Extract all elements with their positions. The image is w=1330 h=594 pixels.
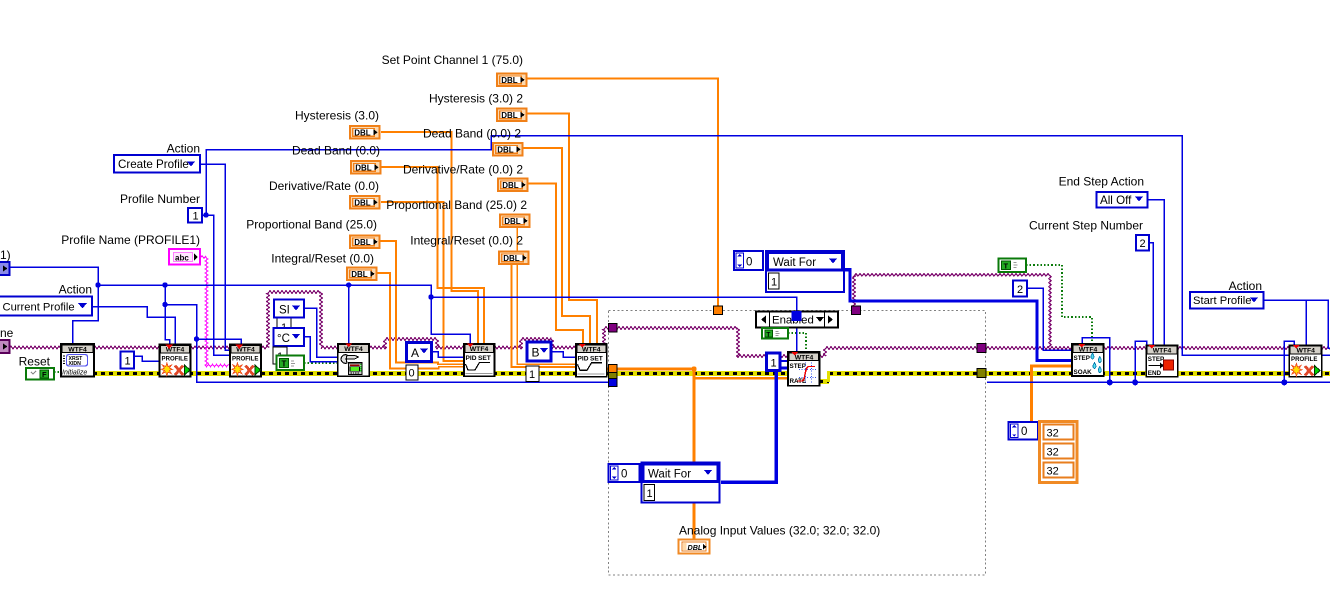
wire: orange Wait For 2 to Analog Input Values array terminal [693,503,696,539]
tunnel: purple string tunnel structure right edge [977,344,986,353]
dropdown: A [407,343,432,362]
terminal DBL Proportional Band 2 [500,215,530,228]
node U8 WTF4 STEP SOAK [1072,344,1104,376]
BOXES-LAYER [0,74,1264,554]
wire: blue bottom rail right side [987,341,1330,382]
tunnel: blue square on Enabled selector top [792,311,802,321]
wire: blue left terminal (1) to long horizontal rail [9,267,98,344]
wire: green dotted boolean TF to wrench node [304,362,337,364]
control: Wait For 1 dropdown with value 1 [766,251,844,292]
svg-text:WTF4: WTF4 [795,354,814,361]
wire: purple string inside structure from tunnel to right tunnel [617,327,977,358]
wire: pink dotted string from abc constant to PROFILE node 2 [200,256,229,367]
svg-text:1): 1) [0,248,11,262]
terminal DBL Integral/Reset 2 [499,252,529,265]
junction dot: orange wire junction at Wait For 2 feed [691,366,696,371]
svg-text:Derivative/Rate (0.0): Derivative/Rate (0.0) [269,179,379,193]
svg-text:Hysteresis (3.0): Hysteresis (3.0) [295,109,379,123]
terminal DBL Hysteresis [350,126,380,139]
svg-text:°C: °C [277,333,290,345]
svg-text:Start Profile: Start Profile [1193,295,1251,307]
node U10 WTF4 PROFILE 3 [1289,345,1322,377]
wire: orange into STEP SOAK and down to array constant [1032,366,1073,421]
wire: blue Current Step Number constant to STEP END [1148,243,1153,346]
svg-text:End Step Action: End Step Action [1059,175,1144,189]
terminal: blue numeric terminal left edge (1) [0,262,10,275]
svg-text:F: F [42,370,47,379]
wire: blue constant 1 to STEP RATE node [780,360,788,362]
constant: green boolean F Reset [26,368,54,380]
wire: blue constant 2 to STEP SOAK [1027,288,1072,350]
node U9 WTF4 STEP END [1146,345,1177,377]
wire: orange Set Point Channel 1 to structure tunnel [527,79,718,307]
dropdown: All Off [1097,192,1148,208]
NODES-LAYER [61,344,1322,386]
svg-text:Integral/Reset (0.0): Integral/Reset (0.0) [271,252,374,266]
wire: blue rail branch to PROFILE node 1 [165,285,170,345]
wire: orange Proportional Band to PID SET A [380,241,464,364]
svg-text:1: 1 [647,488,653,500]
node U4 WTF4 configure (wrench) [338,344,370,377]
svg-text:PROFILE: PROFILE [1291,356,1317,363]
svg-text:PID: PID [466,355,477,362]
svg-text:T: T [282,359,287,368]
node U1 WTF4 Initialize [61,344,94,377]
svg-text:32: 32 [1047,466,1059,478]
control: array index spinner 0 [1009,422,1039,440]
svg-text:1: 1 [771,277,777,289]
wire: green dotted boolean TF to STEP SOAK node [1026,265,1092,344]
svg-text:WTF4: WTF4 [1079,346,1098,353]
svg-text:Set Point Channel 1 (75.0): Set Point Channel 1 (75.0) [382,53,523,67]
structure: diagram disable structure dotted border [609,311,986,576]
svg-text:Proportional Band (25.0): Proportional Band (25.0) [246,218,377,232]
constant: orange array of 32 values [1040,422,1078,483]
wire: blue long action rail y=285 [98,285,470,344]
wire: blue constant 1 to PROFILE node 1 [134,356,160,361]
junction dots: blue wire junctions [95,212,1287,385]
svg-text:Reset: Reset [19,355,51,369]
svg-text:PROFILE: PROFILE [232,356,258,363]
svg-text:Create Profile: Create Profile [118,158,189,171]
dropdown: Start Profile [1190,292,1264,309]
wire: blue Create Profile dropdown to PROFILE node 2 [200,164,230,350]
wire: orange Derivative/Rate 2 to PID SET B [527,184,583,345]
constant: 1 for STEP RATE [767,353,781,371]
svg-text:Profile Number: Profile Number [120,192,200,206]
svg-text:Wait For: Wait For [648,469,691,481]
wire: blue SI dropdown to wrench node [304,308,338,357]
wire: orange from tunnel to STEP RATE and down to Wait For 2 [607,369,788,462]
wire: orange Dead Band 2 to PID SET B [523,148,590,344]
svg-text:Current Step Number: Current Step Number [1029,219,1143,233]
terminal DBL Dead Band 2 [493,143,523,156]
wire: orange Integral/Reset to PID SET A [377,273,464,369]
svg-text:1: 1 [125,356,131,368]
node U6 WTF4 PID SET B [576,344,607,377]
svg-text:STEP: STEP [790,363,806,370]
svg-text:Proportional Band (25.0) 2: Proportional Band (25.0) 2 [386,198,527,212]
svg-text:A: A [411,346,419,360]
svg-text:32: 32 [1047,428,1059,440]
svg-text:ne: ne [0,326,14,340]
wire: blue Profile Number constant rail up and long top wire [202,136,1330,356]
wire: green dotted boolean TF to STEP RATE node [788,333,806,352]
terminal: DBL array Analog Input Values [679,540,710,554]
svg-text:Analog Input Values (32.0; 32.: Analog Input Values (32.0; 32.0; 32.0) [679,524,880,538]
wire: thick blue Wait For 1 output to STEP SOAK [844,270,1072,361]
selector: Enabled case selector [756,312,838,328]
constant: pink abc string constant [169,249,200,265]
wire: blue Current Profile dropdown to PROFILE node 1 [92,307,175,346]
svg-text:1: 1 [529,369,535,381]
terminal DBL Derivative/Rate [350,196,380,209]
terminal DBL Proportional Band [350,236,380,249]
svg-text:Current Profile: Current Profile [3,302,75,314]
wire: blue All Off dropdown to STEP END [1147,200,1164,346]
node U2 WTF4 PROFILE 1 [160,345,191,377]
svg-text:Hysteresis (3.0) 2: Hysteresis (3.0) 2 [429,92,523,106]
control: Wait For 2 dropdown with value 1 [642,463,720,503]
terminal DBL Hysteresis 2 [497,109,527,122]
svg-text:0: 0 [409,368,415,380]
svg-text:Integral/Reset (0.0) 2: Integral/Reset (0.0) 2 [410,234,523,248]
wire: orange Dead Band to PID SET A [381,167,484,344]
svg-text:PROFILE: PROFILE [162,356,188,363]
node U3 WTF4 PROFILE 2 [230,345,261,377]
constant: Profile Number 1 [188,208,202,223]
svg-text:STEP: STEP [1148,356,1164,363]
svg-text:SET: SET [478,355,491,362]
constant: 1 box under B [526,366,539,382]
wire: purple string right side behind STEP nodes [853,274,1330,350]
svg-text:0: 0 [1021,426,1027,438]
terminal DBL Dead Band [351,161,381,174]
svg-text:Wait For: Wait For [773,257,816,269]
wire: error cluster (yellow/black dashed) main run [93,371,1330,382]
wire: purple string wire from Profile Name terminal across bottom nodes [9,291,608,349]
wire: blue STEP SOAK output to bottom rail [1082,338,1110,383]
wire: thick blue Wait For 2 output up to STEP RATE [721,368,788,482]
svg-text:XIDN: XIDN [69,361,82,367]
tunnel: purple tunnel structure top edge near Wait For [852,306,861,315]
svg-text:T: T [1004,262,1009,271]
wire: blue rail branch across to PROFILE node 2 and blue tunnel [165,305,609,382]
svg-text:WTF4: WTF4 [470,346,489,353]
svg-text:WTF4: WTF4 [68,346,87,353]
svg-text:Initialize: Initialize [62,370,87,377]
svg-text:1: 1 [771,358,777,370]
constant: 2 Current Step Number [1136,235,1149,251]
svg-text:0: 0 [746,257,752,269]
terminal DBL Integral/Reset [347,268,377,281]
wire: orange Proportional Band 2 to PID SET B [517,227,576,364]
tunnel: blue tunnel structure left edge [609,379,618,387]
svg-text:END: END [1148,370,1162,377]
constant: green boolean T (right side) [999,259,1027,273]
tunnel: orange tunnel structure left edge [609,365,618,373]
wire: orange Hysteresis to PID SET A [381,132,478,344]
svg-text:WTF4: WTF4 [1296,348,1315,355]
svg-text:DBL: DBL [688,543,703,552]
svg-text:32: 32 [1047,447,1059,459]
svg-text:SET: SET [590,355,603,362]
tunnel: olive error tunnel structure right edge [977,369,986,378]
constant: 1 for PROFILE node 1 [121,352,135,369]
wire: green dotted boolean Reset to Initialize [54,371,61,373]
node U7 WTF4 STEP RATE [788,352,820,386]
constant: green boolean T (units cluster) [277,356,305,371]
constant: green boolean T (enabled structure) [762,328,788,339]
wire: blue rail continues to Enabled selector and STEP RATE [431,297,797,352]
wire: orange Derivative/Rate to PID SET A [381,202,464,361]
tunnel: purple string tunnel structure left edge [609,324,618,333]
wire: blue A dropdown to PID SET A [431,352,464,358]
svg-text:Profile Name (PROFILE1): Profile Name (PROFILE1) [61,233,200,247]
tunnel: olive error tunnel structure left edge [609,373,618,379]
wire: orange Integral/Reset 2 to PID SET B (pair) [512,265,577,367]
control: Wait For 1 spinner 0 [734,251,763,270]
svg-text:STEP: STEP [1074,355,1090,362]
control: Wait For 2 spinner 0 [609,464,640,482]
svg-text:B: B [532,346,540,360]
wire: orange Hysteresis 2 to PID SET B [527,114,597,345]
terminal: purple string terminal left edge (Profile Name) [0,340,10,353]
svg-text:2: 2 [1017,284,1023,296]
terminal DBL Set Point Channel 1 [497,74,527,87]
wire: blue B dropdown to PID SET B [550,352,576,358]
svg-text:abc: abc [175,254,189,263]
constant: 0 box under A [406,365,418,380]
tunnel: orange tunnel structure top edge for set point [714,306,723,315]
svg-text:SI: SI [279,305,290,317]
svg-text:PID: PID [578,355,589,362]
svg-text:WTF4: WTF4 [1153,348,1172,355]
svg-text:0: 0 [621,469,627,481]
svg-text:Dead Band (0.0) 2: Dead Band (0.0) 2 [423,127,521,141]
dropdown: SI [274,300,304,318]
svg-text:Derivative/Rate (0.0) 2: Derivative/Rate (0.0) 2 [403,163,523,177]
TUNNELS-LAYER [609,306,987,387]
svg-text:All Off: All Off [1100,194,1132,207]
LABELS-LAYER [0,53,1287,538]
wire: blue Start Profile dropdown to PROFILE node 3 [1263,300,1330,348]
dropdown: Current Profile left edge [0,297,92,316]
svg-text:Action: Action [1229,279,1262,293]
svg-text:Action: Action [167,142,200,156]
svg-text:Dead Band (0.0): Dead Band (0.0) [292,144,380,158]
wire: blue degC dropdown to wrench node [304,337,338,362]
constant: 2 step number for SOAK [1013,281,1027,297]
dropdown: Create Profile [114,155,200,173]
svg-text:WTF4: WTF4 [582,346,601,353]
wire: blue rail branch down to wrench node [348,285,350,344]
svg-text:WTF4: WTF4 [344,346,363,353]
constant: hidden 1 box under degC [277,318,291,335]
dropdown: degC [274,328,305,346]
svg-text:Action: Action [59,283,92,297]
dropdown: B [527,342,551,361]
constant: hidden 1 box under TF [273,347,287,364]
svg-text:1: 1 [193,211,199,223]
node U5 WTF4 PID SET A [464,344,495,377]
terminal DBL Derivative/Rate 2 [498,179,528,192]
svg-text:SOAK: SOAK [1074,369,1093,376]
svg-text:2: 2 [1140,238,1146,250]
